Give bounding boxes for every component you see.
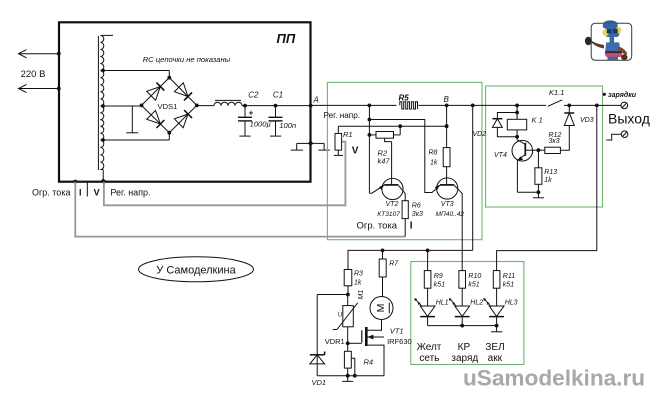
gray sense wire V to R1 wiper — [104, 142, 346, 206]
svg-text:3к3: 3к3 — [412, 211, 423, 218]
resistor R10 k51 — [459, 250, 481, 288]
MOSFET VT1 IRF630 — [348, 326, 412, 375]
wire transformer mid to bridge left — [103, 105, 142, 107]
wire transformer bottom to bridge bottom — [103, 133, 170, 140]
logo oval U Samodelkina — [139, 257, 254, 282]
svg-text:IRF630: IRF630 — [387, 337, 412, 346]
resistor R3 1k — [344, 270, 363, 295]
node B — [444, 95, 450, 107]
label Ogr toka in regulator box — [357, 220, 398, 231]
ground LED common — [491, 326, 502, 332]
svg-text:k51: k51 — [468, 282, 479, 289]
wire motor to VT1 drain — [367, 320, 381, 331]
wire R5 to switch K1.1 — [419, 104, 547, 106]
wire output bus down to R11 — [497, 105, 597, 270]
wire bus switch to charge terminal — [567, 104, 621, 108]
potentiometer R2 k47 — [369, 126, 400, 165]
resistor R12 3k3 — [538, 132, 561, 154]
svg-text:C2: C2 — [248, 91, 259, 100]
svg-text:МП40..42: МП40..42 — [436, 211, 465, 218]
svg-text:R6: R6 — [412, 203, 421, 210]
svg-text:k51: k51 — [434, 282, 445, 289]
power supply unit box PP — [59, 22, 311, 181]
chassis stub at bridge left — [126, 106, 138, 133]
svg-text:Рег. напр.: Рег. напр. — [324, 111, 361, 120]
svg-text:k51: k51 — [503, 282, 514, 289]
svg-text:VD3: VD3 — [580, 117, 594, 124]
svg-text:RC цепочки не показаны: RC цепочки не показаны — [143, 55, 231, 64]
transistor VT3 MP40 — [432, 178, 464, 251]
zener diode VD1 — [310, 295, 326, 387]
svg-text:1k: 1k — [430, 159, 438, 166]
svg-text:заряд: заряд — [451, 353, 478, 364]
svg-text:1000µ: 1000µ — [250, 120, 272, 129]
resistor R9 k51 — [424, 250, 445, 288]
transistor VT4 — [494, 140, 540, 192]
svg-text:VDS1: VDS1 — [158, 102, 178, 111]
svg-text:100n: 100n — [279, 121, 296, 130]
svg-text:Желт: Желт — [417, 342, 442, 353]
green box voltage regulator section — [327, 82, 482, 239]
label green battery — [485, 342, 504, 364]
motor M1 — [358, 290, 393, 320]
ground under R13 — [533, 192, 544, 198]
svg-text:1k: 1k — [354, 279, 362, 286]
varistor VDR1 — [325, 295, 358, 347]
capacitor C1 100n — [269, 91, 297, 137]
svg-text:R4: R4 — [364, 358, 374, 367]
capacitor C2 1000u — [238, 91, 271, 137]
LED common wire — [428, 324, 499, 328]
svg-text:HL2: HL2 — [470, 300, 483, 307]
svg-text:+: + — [249, 109, 254, 118]
svg-text:акк: акк — [488, 353, 503, 364]
svg-text:V: V — [352, 145, 359, 156]
label Reg napr under box — [110, 188, 150, 198]
svg-text:Выход: Выход — [608, 110, 650, 126]
label yellow net — [417, 342, 442, 364]
relay coil K1 — [507, 116, 542, 140]
minus output terminal — [606, 131, 628, 140]
wire R2 wiper to VT2 base — [391, 142, 393, 185]
resistor R6 3k3 — [402, 201, 423, 237]
label V bold — [352, 145, 359, 156]
svg-text:U: U — [338, 313, 342, 319]
svg-text:K1.1: K1.1 — [549, 88, 564, 97]
svg-text:VT2: VT2 — [386, 201, 399, 208]
svg-text:1k: 1k — [544, 177, 552, 184]
resistor R7 — [379, 250, 399, 296]
svg-text:220 В: 220 В — [21, 69, 46, 80]
svg-text:Огр. тока: Огр. тока — [32, 188, 70, 198]
wire VT4 emitter to ground — [517, 190, 540, 194]
LED HL3 — [483, 288, 517, 325]
svg-text:3к3: 3к3 — [549, 138, 560, 145]
svg-text:КР: КР — [458, 342, 471, 353]
svg-text:VT4: VT4 — [494, 152, 507, 159]
label Ogr toka left — [32, 188, 70, 198]
svg-text:C1: C1 — [273, 91, 283, 100]
svg-text:ЗЕЛ: ЗЕЛ — [485, 342, 504, 353]
svg-text:R10: R10 — [468, 273, 481, 280]
wire R3 bottom node — [317, 293, 350, 297]
note RC chains not shown — [143, 55, 231, 64]
svg-text:R3: R3 — [354, 270, 363, 277]
svg-text:K 1: K 1 — [532, 116, 543, 125]
svg-text:R7: R7 — [389, 261, 399, 268]
svg-text:зарядки: зарядки — [608, 91, 637, 99]
resistor R8 1k — [429, 105, 451, 184]
svg-text:HL1: HL1 — [436, 300, 449, 307]
svg-text:I: I — [410, 220, 413, 231]
svg-text:VD1: VD1 — [312, 378, 327, 387]
svg-text:R13: R13 — [544, 169, 557, 176]
flyback diode VD2 — [473, 113, 518, 139]
svg-text:VT1: VT1 — [390, 326, 404, 335]
svg-text:R8: R8 — [429, 149, 438, 156]
wire transformer to bridge top — [103, 71, 170, 78]
wire line A to VT3 collector — [369, 120, 432, 193]
svg-text:ПП: ПП — [277, 31, 296, 46]
wire line B regulation node — [338, 124, 448, 128]
LED HL1 — [414, 288, 448, 325]
LED HL2 — [449, 288, 483, 325]
gray sense wire I to R6 bottom — [75, 182, 405, 237]
bottom rail wire — [317, 374, 384, 378]
charge output terminal — [621, 102, 628, 109]
label Vyhod output — [608, 110, 650, 126]
svg-text:Рег. напр.: Рег. напр. — [110, 188, 150, 198]
svg-text:M1: M1 — [358, 290, 365, 300]
wire top bus A to R5 — [311, 104, 397, 106]
label zaryadki — [603, 91, 637, 99]
node A — [309, 95, 319, 107]
svg-text:uSamodelkina.ru: uSamodelkina.ru — [463, 366, 645, 391]
wire inductor to node A — [242, 105, 311, 107]
svg-text:B: B — [444, 95, 450, 104]
resistor R13 1k — [535, 150, 557, 192]
bridge rectifier VDS1 — [140, 76, 199, 135]
wire bridge to inductor — [197, 105, 214, 107]
svg-text:HL3: HL3 — [505, 300, 518, 307]
wire rail from top bus down to VT2 emitter — [368, 104, 372, 194]
resistor R5 shunt — [399, 93, 418, 109]
svg-text:VDR1: VDR1 — [325, 337, 345, 346]
potentiometer R1 — [334, 126, 353, 155]
label red charge — [451, 342, 478, 364]
switch K1.1 — [548, 88, 570, 106]
svg-text:M: M — [375, 304, 387, 313]
wire top bus tap down right of VT3 — [471, 104, 475, 251]
svg-text:Огр. тока: Огр. тока — [357, 220, 398, 231]
wire bottom feed bus — [348, 249, 473, 270]
svg-text:R9: R9 — [434, 273, 443, 280]
inductor filter choke — [214, 100, 242, 105]
svg-text:R11: R11 — [503, 273, 515, 280]
watermark uSamodelkina.ru — [463, 366, 645, 391]
svg-text:R1: R1 — [343, 130, 353, 139]
green box relay output section — [486, 86, 603, 207]
resistor R11 k51 — [493, 271, 515, 289]
svg-text:У Самоделкина: У Самоделкина — [156, 264, 236, 276]
svg-text:A: A — [313, 95, 319, 104]
label I bold — [410, 220, 413, 231]
svg-text:k47: k47 — [378, 156, 391, 165]
svg-text:V: V — [94, 187, 100, 197]
preset resistor R4 — [344, 343, 373, 375]
0V node chassis stubs on box edge — [291, 141, 330, 150]
svg-text:R5: R5 — [399, 93, 410, 102]
diode VD3 — [560, 105, 593, 150]
svg-text:VT3: VT3 — [441, 201, 454, 208]
transformer T1 windings — [98, 35, 113, 183]
green box LED indicators — [411, 262, 524, 365]
svg-text:сеть: сеть — [419, 353, 439, 364]
220V input arrows — [19, 50, 61, 93]
svg-text:КТ3107: КТ3107 — [377, 211, 400, 218]
svg-text:I: I — [79, 187, 82, 197]
ground under R4 — [342, 376, 353, 382]
transistor VT2 KT3107 — [369, 178, 405, 217]
svg-text:VD2: VD2 — [473, 131, 487, 138]
robot mascot image top right — [585, 20, 632, 60]
label Reg napr in regulator box — [324, 111, 361, 120]
I and V terminal bars under box — [73, 180, 105, 198]
wire relay node down from bus — [515, 104, 519, 120]
